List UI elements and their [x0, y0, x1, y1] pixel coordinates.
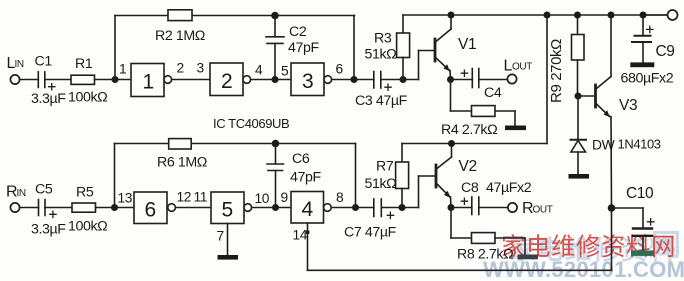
node C6 top: [272, 140, 280, 148]
label C7 47µF: [344, 225, 397, 241]
label 100kΩ: [68, 90, 107, 106]
svg-text:10: 10: [255, 191, 270, 206]
wire C3 to R3 node: [381, 79, 419, 81]
svg-text:C7 47µF: C7 47µF: [344, 225, 397, 241]
node pin9: [272, 204, 279, 211]
wire node pin6 up to rail: [353, 16, 355, 80]
transistor V1: [435, 15, 451, 80]
svg-text:14: 14: [293, 228, 308, 243]
resistor R3: [397, 15, 410, 80]
terminal Lin: [10, 75, 19, 84]
wire R5 to gate6: [96, 207, 135, 209]
node C9 top: [640, 12, 647, 19]
pin 3 label: [197, 61, 205, 76]
label 3.3µF: [31, 91, 66, 107]
label 3.3µF bottom: [31, 222, 66, 238]
svg-text:8: 8: [336, 190, 344, 205]
svg-text:OUT: OUT: [512, 62, 532, 73]
label 47pF bottom: [290, 170, 321, 186]
svg-text:C3 47µF: C3 47µF: [355, 93, 408, 109]
svg-text:V3: V3: [619, 97, 637, 114]
label 51kΩ top: [365, 47, 397, 63]
label R5: [76, 185, 94, 201]
svg-text:R8 2.7kΩ: R8 2.7kΩ: [457, 247, 513, 263]
svg-text:2: 2: [177, 61, 184, 76]
label 680µFx2: [621, 71, 674, 87]
pin 11 label: [194, 190, 208, 205]
zener diode DW: [571, 96, 587, 174]
terminal V+: [668, 10, 678, 20]
svg-text:47pF: 47pF: [290, 170, 321, 186]
label R4 2.7kΩ: [441, 122, 497, 138]
pin 13 label: [118, 191, 133, 206]
node V1 emitter: [447, 76, 454, 83]
label V1: [458, 36, 476, 53]
node rail to bottom power: [544, 12, 551, 19]
node R7 bottom: [399, 204, 406, 211]
node R9 top: [574, 12, 581, 19]
wire bottom power rail: [402, 15, 547, 144]
capacitor C7: [374, 199, 394, 219]
resistor R4: [472, 106, 496, 117]
pin 4 label: [255, 63, 263, 78]
pin 14 wire down: [307, 223, 309, 270]
wire C4 to Lout: [479, 79, 508, 81]
svg-text:C8: C8: [461, 180, 479, 196]
label C3 47µF: [355, 93, 408, 109]
svg-text:R3: R3: [374, 31, 392, 47]
resistor R5: [72, 203, 96, 212]
wire C1 to R1: [45, 79, 71, 81]
svg-text:R2 1MΩ: R2 1MΩ: [155, 28, 205, 44]
resistor R7: [396, 144, 409, 208]
svg-text:C4: C4: [484, 85, 502, 101]
svg-text:R4 2.7kΩ: R4 2.7kΩ: [441, 122, 497, 138]
label Lin: [7, 55, 24, 72]
watermark red text 家电维修资料网: [501, 233, 676, 261]
label R9 270kΩ vertical: [548, 39, 565, 103]
capacitor C4: [451, 69, 479, 88]
node input gate6: [111, 204, 118, 211]
wire gate1 to gate2: [172, 79, 210, 81]
gate 1 digit: [143, 71, 154, 94]
label C8: [461, 180, 479, 196]
label 47pF top: [288, 40, 319, 56]
wire node to V3 base: [578, 95, 595, 97]
resistor R1: [71, 75, 95, 84]
label C1: [35, 54, 53, 70]
node pin8: [352, 204, 359, 211]
label 1N4103: [618, 137, 661, 152]
svg-text:9: 9: [281, 190, 289, 205]
pin 14 dot mark: [306, 231, 310, 234]
pin 5 label: [281, 64, 289, 79]
wire R1 to gate1: [95, 79, 132, 81]
svg-text:100kΩ: 100kΩ: [68, 219, 107, 235]
watermark blue text: [509, 229, 683, 265]
svg-text:11: 11: [194, 190, 208, 205]
wire node pin8 up to rail: [355, 144, 357, 208]
svg-text:4: 4: [302, 198, 314, 221]
capacitor C1: [38, 72, 55, 90]
svg-text:C1: C1: [35, 54, 53, 70]
node V1 collector: [448, 12, 455, 19]
ground C9: [630, 62, 654, 67]
pin 7 wire: [227, 224, 229, 256]
svg-text:C10: C10: [626, 185, 654, 202]
label R2 1MΩ: [155, 28, 205, 44]
transistor V2: [436, 144, 452, 208]
wire node up to feedback rail: [114, 16, 116, 80]
ground R8: [518, 255, 539, 260]
svg-text:R5: R5: [76, 185, 94, 201]
wire gate2 to gate3: [251, 79, 291, 81]
svg-text:1: 1: [143, 71, 154, 94]
watermark www.520101.com text: [483, 257, 684, 281]
svg-text:12: 12: [177, 190, 192, 205]
wire riser to V2 base: [419, 176, 436, 208]
svg-text:3.3µF: 3.3µF: [31, 222, 66, 238]
resistor R6: [169, 139, 192, 149]
svg-text:3.3µF: 3.3µF: [31, 91, 66, 107]
label C4: [484, 85, 502, 101]
gate 4 digit: [302, 198, 314, 221]
gate 2 digit: [221, 70, 232, 93]
gate 3 digit: [302, 70, 313, 93]
svg-text:47µFx2: 47µFx2: [486, 180, 532, 196]
capacitor C6: [267, 144, 284, 208]
node R9 bottom / zener top: [575, 93, 582, 100]
svg-text:R9 270kΩ: R9 270kΩ: [548, 39, 565, 103]
label C10: [626, 185, 654, 202]
terminal Lout: [507, 74, 516, 83]
svg-text:1N4103: 1N4103: [618, 137, 661, 152]
svg-text:R: R: [522, 200, 533, 217]
label R8 2.7kΩ: [457, 247, 513, 263]
node V2 collector: [448, 140, 455, 147]
pin 12 label: [177, 190, 192, 205]
wire R8 to ground: [495, 238, 525, 255]
pin 6 label: [336, 62, 344, 77]
svg-text:C6: C6: [292, 151, 310, 167]
svg-text:DW: DW: [592, 138, 615, 153]
label 47µFx2 bottom: [486, 180, 532, 196]
svg-text:C5: C5: [35, 182, 53, 198]
wire gate3 to C3: [332, 79, 374, 81]
wire C5 to R5: [45, 207, 72, 209]
svg-text:6: 6: [145, 199, 156, 222]
node pin5: [272, 76, 279, 83]
label Rin: [6, 184, 26, 201]
svg-text:V1: V1: [458, 36, 476, 53]
svg-text:IN: IN: [17, 188, 26, 199]
svg-text:680µFx2: 680µFx2: [621, 71, 674, 87]
capacitor C10: [612, 208, 654, 251]
node pin6: [351, 76, 358, 83]
label 100kΩ bottom: [68, 219, 107, 235]
wire C8 to Rout: [479, 207, 508, 209]
svg-text:5: 5: [281, 64, 289, 79]
ground DW: [569, 174, 590, 179]
pin 14 label: [293, 228, 308, 243]
resistor R8: [472, 233, 496, 244]
svg-text:100kΩ: 100kΩ: [68, 90, 107, 106]
gate 5 digit: [222, 199, 233, 222]
wire VDD supply run: [308, 208, 612, 270]
label V3: [619, 97, 637, 114]
gate 6 digit: [145, 199, 156, 222]
svg-text:R6 1MΩ: R6 1MΩ: [157, 155, 207, 171]
wire riser to V1 base: [419, 51, 435, 80]
pin 7 label: [217, 229, 224, 244]
capacitor C8: [451, 197, 479, 215]
svg-text:1: 1: [119, 62, 126, 77]
wire C7 to R7 node: [381, 207, 418, 209]
ground pin7: [218, 255, 239, 260]
label 51kΩ bottom: [365, 176, 397, 192]
wire Lin to C1: [20, 79, 39, 81]
pin 8 label: [336, 190, 344, 205]
capacitor C5: [39, 200, 57, 218]
capacitor C3: [374, 72, 391, 91]
svg-text:5: 5: [222, 199, 233, 222]
label DW: [592, 138, 615, 153]
node input gate1: [112, 76, 119, 83]
label R3: [374, 31, 392, 47]
svg-text:R: R: [6, 184, 17, 201]
label Lout: [504, 58, 533, 75]
wire rail to V+ terminal: [643, 14, 667, 16]
label C5: [35, 182, 53, 198]
svg-text:4: 4: [255, 63, 263, 78]
svg-text:6: 6: [336, 62, 344, 77]
label R1: [75, 56, 93, 72]
wire node up to bottom feedback rail: [114, 144, 116, 208]
svg-text:OUT: OUT: [533, 205, 553, 216]
pin 9 label: [281, 190, 289, 205]
inverter gate 3: [291, 63, 332, 96]
wire gate6 to gate5: [175, 207, 211, 209]
label Rout: [522, 200, 553, 217]
svg-text:R1: R1: [75, 56, 93, 72]
capacitor C9: [632, 15, 653, 62]
node V2 emitter: [448, 204, 455, 211]
inverter gate 5: [211, 192, 252, 224]
resistor R2: [168, 10, 192, 21]
svg-text:7: 7: [217, 229, 224, 244]
pin 10 label: [255, 191, 270, 206]
wire top power rail: [403, 14, 668, 16]
svg-text:3: 3: [302, 70, 313, 93]
label C9: [656, 43, 675, 60]
ground C10: [631, 251, 654, 256]
label C2: [289, 24, 307, 40]
wire Rin to C5: [20, 207, 39, 209]
terminal Rin: [10, 203, 19, 212]
resistor R9: [572, 15, 585, 96]
inverter gate 1: [131, 64, 172, 97]
ground R4: [505, 126, 526, 131]
pin 2 label: [177, 61, 184, 76]
wire feedback rail top: [115, 15, 355, 17]
wire R4 to ground: [495, 111, 515, 125]
svg-text:51kΩ: 51kΩ: [365, 47, 397, 63]
pin 1 label: [119, 62, 126, 77]
svg-text:51kΩ: 51kΩ: [365, 176, 397, 192]
svg-text:V2: V2: [459, 158, 477, 175]
label IC TC4069UB: [213, 116, 289, 131]
svg-text:C2: C2: [289, 24, 307, 40]
label C6: [292, 151, 310, 167]
svg-text:C9: C9: [656, 43, 675, 60]
label V2: [459, 158, 477, 175]
wire bottom feedback rail: [115, 143, 356, 145]
node C10 tap: [608, 204, 616, 212]
inverter gate 2: [210, 63, 251, 96]
wire V2 emitter down to R8: [451, 208, 472, 239]
svg-text:IC TC4069UB: IC TC4069UB: [213, 116, 289, 131]
label R6 1MΩ: [157, 155, 207, 171]
transistor V3: [596, 15, 612, 208]
svg-text:3: 3: [197, 61, 205, 76]
capacitor C2: [266, 16, 284, 80]
node C2 top: [271, 12, 279, 20]
svg-text:47pF: 47pF: [288, 40, 319, 56]
node V3 collector: [608, 12, 615, 19]
svg-text:R7: R7: [376, 159, 394, 175]
wire gate4 to C7: [331, 207, 374, 209]
terminal Rout: [508, 203, 517, 212]
wire gate5 to gate4: [252, 207, 291, 209]
svg-text:IN: IN: [15, 59, 24, 70]
inverter gate 4: [291, 192, 331, 224]
wire V1 emitter down to R4: [451, 80, 472, 112]
label R7: [376, 159, 394, 175]
node R3 bottom: [400, 76, 407, 83]
inverter gate 6: [134, 192, 175, 224]
svg-text:2: 2: [221, 70, 232, 93]
svg-text:13: 13: [118, 191, 133, 206]
